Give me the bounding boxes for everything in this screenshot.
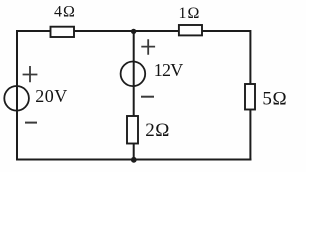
resistor R3 2ohm — [127, 116, 138, 144]
wire left — [16, 30, 18, 161]
wire right — [249, 30, 251, 161]
svg-text:4Ω: 4Ω — [54, 4, 76, 21]
resistor R1 4ohm — [51, 27, 75, 37]
plus sign V1 — [23, 66, 38, 82]
svg-text:20V: 20V — [35, 86, 68, 106]
wire middle branch — [133, 31, 135, 160]
svg-text:12V: 12V — [154, 60, 184, 80]
svg-text:5Ω: 5Ω — [262, 88, 287, 109]
wire bottom — [16, 159, 251, 161]
minus sign V1 — [25, 122, 37, 124]
node junction top — [131, 29, 136, 34]
resistor R2 1ohm — [179, 25, 202, 35]
resistor R4 5ohm — [245, 84, 255, 110]
voltage source V2 12V circle — [121, 62, 146, 87]
minus sign V2 — [141, 96, 154, 98]
svg-text:1Ω: 1Ω — [179, 5, 201, 22]
plus sign V2 — [141, 39, 155, 55]
node junction bottom — [131, 157, 137, 163]
voltage source V1 20V circle — [4, 86, 29, 111]
wire top — [17, 30, 250, 32]
svg-text:2Ω: 2Ω — [145, 120, 170, 141]
